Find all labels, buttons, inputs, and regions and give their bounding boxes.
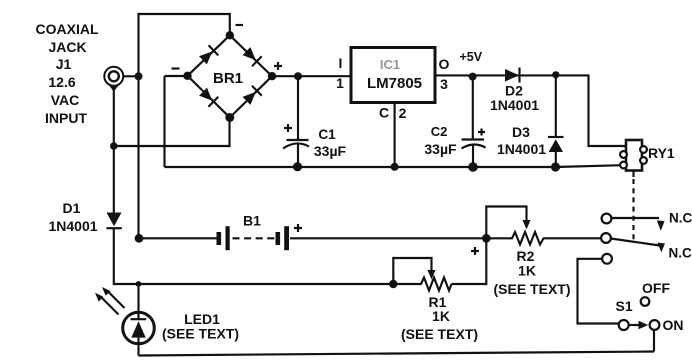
plus mark battery feed (471, 247, 479, 255)
wire minus leg down to ground rail (163, 76, 165, 167)
wire top contact (612, 217, 660, 219)
wire D3 branch lower (555, 152, 557, 167)
svg-text:J1: J1 (56, 56, 72, 72)
wire C1 branch lower (297, 144, 299, 167)
capacitor C1 (283, 124, 347, 159)
node C1 top (294, 72, 302, 80)
wire jack shell to node (124, 75, 135, 77)
plus mark right (274, 62, 282, 70)
diode D1 (48, 200, 121, 234)
svg-text:C1: C1 (318, 127, 336, 142)
arrow common arm (657, 243, 665, 253)
wire bottom rail (139, 352, 655, 356)
coaxial jack J1 (104, 67, 123, 92)
node R1 junction (389, 280, 397, 288)
relay common contact (601, 233, 611, 243)
wire C2 branch lower (472, 144, 474, 167)
svg-text:N.C.: N.C. (669, 246, 692, 261)
svg-text:O: O (439, 56, 450, 72)
wire D1 to lower run (114, 228, 394, 284)
svg-text:RY1: RY1 (648, 145, 675, 161)
bridge diode upper-left (198, 45, 218, 65)
svg-text:3: 3 (440, 76, 448, 92)
LED emission arrow 1 (101, 297, 119, 315)
svg-text:(SEE TEXT): (SEE TEXT) (493, 281, 570, 297)
wire relay actuator dashed (632, 179, 634, 243)
wire IC output to corner (436, 75, 627, 146)
svg-text:1N4001: 1N4001 (48, 218, 97, 234)
svg-text:D1: D1 (63, 200, 81, 216)
node C2 top (469, 73, 477, 81)
svg-text:LM7805: LM7805 (367, 75, 422, 92)
svg-text:D3: D3 (512, 124, 530, 140)
resistor R1 potentiometer (393, 258, 478, 342)
node LED feed (136, 281, 142, 287)
bridge diode upper-right (242, 46, 262, 66)
wire bottom rail (165, 165, 623, 167)
relay contact top N.C. (602, 214, 612, 224)
wire shell vertical down to battery node (137, 76, 139, 238)
wire R2 junction down to R1 run (452, 238, 487, 284)
LED1 (95, 287, 239, 344)
svg-text:I: I (339, 55, 343, 71)
svg-text:12.6: 12.6 (48, 74, 75, 90)
switch S1 (616, 280, 684, 333)
arrow top contact (657, 221, 665, 231)
bridge diode lower-left (198, 87, 218, 107)
battery B1 (217, 213, 303, 251)
label J1 coaxial jack text (36, 21, 99, 126)
svg-text:BR1: BR1 (213, 70, 243, 87)
node battery junction (135, 234, 144, 243)
svg-text:VAC: VAC (51, 92, 80, 108)
svg-text:OFF: OFF (642, 280, 670, 296)
svg-text:+5V: +5V (460, 50, 483, 64)
svg-text:IC1: IC1 (380, 57, 400, 72)
node R2 junction (482, 234, 491, 243)
LED emission arrow 2 (108, 291, 125, 308)
wire shell up and over to bridge top (139, 14, 230, 76)
relay contact bottom (602, 254, 612, 264)
svg-text:C: C (379, 105, 389, 121)
node C1 rail junction (293, 162, 302, 171)
svg-text:C2: C2 (431, 124, 448, 139)
node D3 rail junction (551, 162, 560, 171)
node jack shell junction (135, 72, 143, 80)
diode D3 (497, 124, 564, 157)
wire bottom contact to S1 (578, 259, 619, 324)
svg-text:33µF: 33µF (424, 141, 457, 157)
svg-text:B1: B1 (243, 213, 261, 229)
wire LED to bottom rail (137, 344, 139, 356)
wire bridge minus stub (165, 75, 188, 77)
svg-text:1N4001: 1N4001 (490, 97, 539, 113)
svg-text:1K: 1K (518, 263, 536, 279)
node C2 rail junction (468, 162, 478, 172)
svg-text:1K: 1K (432, 308, 450, 324)
relay coil RY1 (620, 140, 675, 171)
capacitor C2 (424, 124, 485, 157)
wire relay bottom stub (632, 171, 634, 178)
wire pin down to D1 (113, 146, 115, 213)
wire pin to bridge bottom vertex (114, 118, 230, 147)
svg-text:(SEE TEXT): (SEE TEXT) (162, 326, 239, 342)
resistor R2 potentiometer (486, 207, 601, 298)
node IC ground rail junction (391, 163, 399, 171)
wire ON contact to bottom rail (653, 330, 655, 352)
svg-text:ON: ON (663, 317, 684, 333)
wire battery right lead (290, 237, 486, 239)
op-amp regulator IC1 LM7805 (351, 48, 435, 103)
svg-text:1: 1 (336, 75, 344, 91)
svg-text:N.C.: N.C. (669, 211, 692, 226)
wire C2 branch upper (472, 77, 474, 139)
wire LED feed down (137, 284, 139, 312)
svg-text:1N4001: 1N4001 (497, 141, 546, 157)
minus mark top (236, 24, 244, 26)
node D3 top (552, 71, 559, 78)
svg-text:S1: S1 (616, 298, 633, 314)
bridge rectifier BR1 (172, 25, 283, 122)
bridge diode lower-right (242, 86, 262, 106)
wire C1 branch upper (297, 76, 299, 139)
svg-text:JACK: JACK (48, 39, 86, 55)
svg-text:(SEE TEXT): (SEE TEXT) (401, 326, 478, 342)
svg-text:INPUT: INPUT (45, 110, 87, 126)
node pin tee (110, 142, 118, 150)
wire D3 branch upper (555, 75, 557, 137)
wire common arm (611, 239, 660, 246)
svg-text:33µF: 33µF (314, 143, 347, 159)
wire IC ground pin 2 (394, 103, 396, 168)
svg-text:2: 2 (399, 105, 407, 121)
svg-text:COAXIAL: COAXIAL (36, 21, 99, 37)
wire battery left lead (139, 237, 217, 239)
minus mark left (172, 67, 180, 69)
wire jack pin down (113, 90, 115, 146)
diode D2 (490, 68, 539, 114)
wire bridge plus to IC input (272, 75, 351, 77)
